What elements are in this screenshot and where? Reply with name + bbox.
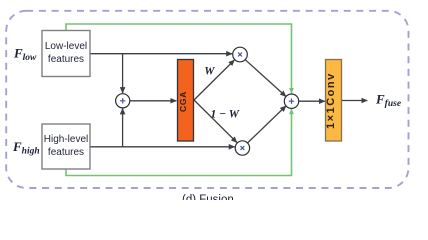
green residual wire from High-level box bottom to sum node S2 — [66, 109, 292, 176]
svg-text:Fhigh: Fhigh — [12, 139, 40, 157]
1x1Conv block — [325, 60, 342, 142]
wire Low-level box to multiplier M1 — [90, 53, 232, 55]
green residual wire from Low-level box top to sum node S2 — [66, 24, 292, 93]
svg-text:1 − W: 1 − W — [211, 108, 240, 120]
wire CGA to multiplier M1 (W branch) — [194, 60, 234, 100]
svg-text:CGA: CGA — [178, 91, 188, 112]
svg-text:High-level: High-level — [44, 134, 88, 145]
box: Low-level features — [42, 31, 90, 77]
wire sum node S1 to CGA — [130, 100, 177, 102]
svg-text:features: features — [48, 54, 84, 65]
CGA block — [178, 60, 194, 142]
wire 1x1Conv to output F_fuse — [342, 100, 368, 102]
svg-text:Flow: Flow — [13, 46, 37, 64]
wire High-level box to multiplier M2 — [90, 146, 235, 148]
wire sum node S2 to 1x1Conv — [299, 100, 325, 102]
sum node S1 — [116, 94, 130, 108]
svg-text:Low-level: Low-level — [45, 41, 87, 52]
wire multiplier M2 to sum node S2 — [248, 106, 286, 143]
wire multiplier M1 to sum node S2 — [245, 60, 286, 97]
multiplier node M2 — [235, 141, 249, 155]
wire junction drop to sum node S1 — [122, 54, 124, 93]
svg-text:1×1Conv: 1×1Conv — [325, 72, 337, 129]
svg-text:features: features — [48, 147, 84, 158]
box: High-level features — [42, 124, 90, 169]
wire junction rise to sum node S1 — [122, 109, 124, 147]
svg-text:Ffuse: Ffuse — [375, 92, 402, 110]
multiplier node M1 — [233, 47, 248, 62]
outer dashed rounded border — [6, 11, 408, 188]
svg-text:(d) Fusion: (d) Fusion — [182, 194, 234, 200]
svg-text:W: W — [204, 66, 215, 78]
sum node S2 — [284, 94, 298, 108]
wire CGA to multiplier M2 (1-W branch) — [194, 100, 237, 143]
